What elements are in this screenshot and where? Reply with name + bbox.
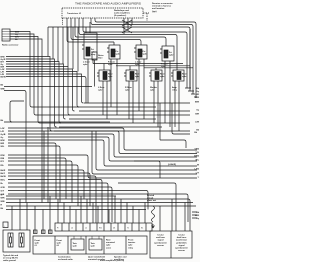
feeder drop wire 1: [47, 27, 49, 57]
corner wire to junction box: [118, 183, 176, 231]
relay component: [92, 52, 97, 60]
svg-text:spkr: spkr: [106, 244, 111, 247]
label radio/tape amplifier: [114, 9, 131, 17]
svg-text:sensor: sensor: [157, 244, 164, 247]
svg-text:spkr: spkr: [98, 89, 103, 92]
nested corner wires right mid: [160, 140, 186, 148]
band5 wire 2: [8, 191, 148, 210]
svg-text:B/R: B/R: [195, 114, 199, 116]
amplifier dashed box: [62, 8, 143, 18]
left harness labels band 5: [1, 187, 5, 196]
wire with corner down: [1, 89, 6, 91]
svg-text:B/W: B/W: [1, 140, 5, 142]
harness wire 3: [6, 62, 61, 124]
svg-text:R/W: R/W: [1, 155, 5, 157]
amplifier block F: [124, 70, 140, 81]
label under block A: [83, 61, 90, 67]
amplifier block B: [107, 45, 120, 59]
connector marks above big box: [34, 230, 38, 234]
legend note top right: [152, 2, 173, 13]
svg-text:speedometer: speedometer: [175, 247, 188, 250]
svg-text:circuit: circuit: [147, 197, 154, 200]
svg-text:spkr: spkr: [169, 54, 174, 57]
band4 wire 3: [8, 176, 96, 223]
band5 wire 1: [8, 187, 112, 222]
svg-text:(6 speakers): (6 speakers): [114, 14, 126, 17]
svg-text:spkr: spkr: [182, 75, 187, 78]
svg-text:conn: conn: [106, 247, 112, 249]
amplifier block H: [171, 70, 187, 81]
svg-text:L Rear: L Rear: [98, 86, 105, 89]
amp fan wire 2: [71, 18, 141, 42]
svg-text:(typ): (typ): [152, 10, 157, 13]
cell text 2: [57, 239, 63, 247]
wire to right y174: [92, 131, 197, 174]
svg-text:pedal ACC: pedal ACC: [176, 241, 187, 244]
svg-text:spkr: spkr: [108, 75, 113, 78]
svg-text:Front: Front: [57, 239, 63, 242]
right stub wires: [185, 29, 197, 97]
harness wire 6: [6, 69, 75, 111]
inter-block wire 3: [144, 67, 193, 69]
svg-text:speedometer: speedometer: [154, 241, 167, 244]
label under block D: [161, 63, 168, 69]
bottom bus wire 4: [6, 209, 146, 211]
svg-text:Bk/R: Bk/R: [1, 170, 6, 172]
svg-text:spkr: spkr: [160, 75, 165, 78]
inter-block wire 1: [93, 63, 183, 65]
caption under box 2: [88, 256, 106, 262]
harness wire 2: [6, 59, 57, 127]
band3 wire 3: [8, 161, 72, 203]
bottom bus wire 3: [6, 205, 196, 207]
label under block F: [125, 86, 132, 92]
amp fan wire 1: [67, 18, 114, 42]
svg-text:Rear: Rear: [108, 73, 113, 76]
band2 wire 5: [8, 140, 197, 166]
wire Bk mid long: [1, 120, 5, 122]
svg-text:Twtr: Twtr: [73, 242, 77, 245]
svg-text:air temp SE-TU: air temp SE-TU: [3, 257, 18, 260]
svg-text:T1: T1: [127, 228, 129, 230]
band3 wire 2: [8, 158, 66, 199]
harness wire 7: [6, 72, 79, 108]
svg-text:W/B: W/B: [1, 201, 6, 203]
svg-text:Cruise: Cruise: [178, 234, 185, 237]
block C wires: [139, 42, 144, 120]
svg-text:Rear: Rear: [106, 239, 111, 242]
band2 wire 6: [8, 143, 56, 199]
svg-text:(L.Bk/R): (L.Bk/R): [168, 164, 176, 166]
left harness labels band 3: [1, 155, 5, 167]
amplifier block G: [149, 70, 165, 81]
svg-text:L/W: L/W: [1, 128, 5, 130]
svg-text:R Rear: R Rear: [125, 86, 132, 89]
left harness labels band 4: [1, 170, 6, 185]
svg-text:spkr: spkr: [91, 245, 96, 248]
bottom bus wire 2: [6, 202, 193, 204]
radio fan wire 3: [10, 37, 40, 124]
svg-text:spkr: spkr: [57, 242, 62, 245]
label under block G: [150, 86, 157, 92]
svg-text:W1: W1: [99, 228, 102, 230]
label under block C: [135, 61, 142, 67]
left harness labels band 1: [1, 57, 6, 79]
corner wire L: [10, 101, 24, 122]
svg-text:spkr: spkr: [116, 53, 121, 56]
mid bus wire 4: [36, 114, 190, 116]
svg-text:W: W: [197, 165, 199, 167]
block E wires: [103, 64, 107, 120]
svg-text:tweeter: tweeter: [128, 241, 135, 244]
svg-text:Rear: Rear: [160, 73, 165, 76]
feeder drop wire 2: [52, 27, 54, 59]
block B wires: [111, 42, 117, 115]
right edge stub labels: [195, 88, 200, 99]
svg-text:spkr: spkr: [128, 244, 133, 247]
svg-text:Bk/L: Bk/L: [1, 180, 6, 182]
feeder drop wire 3: [57, 27, 59, 62]
harness wire 1: [6, 57, 52, 132]
mid label on wire: [168, 164, 176, 166]
svg-text:Gy/B: Gy/B: [1, 134, 6, 136]
amp fan wire 7: [95, 18, 196, 97]
flexible feeder squiggle: [152, 206, 155, 222]
band4 wire 1: [8, 170, 84, 199]
svg-text:D1: D1: [113, 228, 115, 230]
mid bus wire 1: [84, 102, 190, 104]
svg-text:Br: Br: [1, 182, 4, 185]
svg-text:G/Y: G/Y: [1, 191, 5, 193]
svg-text:Twtr: Twtr: [91, 242, 95, 245]
connector strip: [55, 223, 152, 231]
svg-text:Radio connector: Radio connector: [2, 44, 19, 47]
bottom bus wire 0: [6, 195, 116, 197]
svg-text:R front: R front: [108, 61, 115, 64]
block D wires: [165, 39, 170, 127]
radio fan wire 4: [10, 39, 42, 203]
svg-text:spkr: spkr: [135, 75, 140, 78]
amp fan wire 6: [91, 18, 193, 94]
block G wires: [154, 68, 158, 127]
band2 wire 3: [8, 134, 197, 157]
label Transistors #1: [67, 12, 82, 15]
harness wire 4: [6, 64, 66, 119]
block H wires: [175, 37, 179, 132]
band3 wire 4: [8, 165, 78, 206]
dashed stub below amp box: [62, 18, 64, 25]
svg-text:Bk/W: Bk/W: [1, 77, 6, 79]
feeder drop wire 4: [62, 27, 64, 64]
mid bus wire 6: [40, 122, 190, 124]
svg-text:sensor: sensor: [178, 249, 185, 252]
wire Bk long: [1, 85, 5, 87]
svg-text:spkr: spkr: [35, 242, 40, 245]
band2 wire 2: [8, 131, 197, 154]
band3 wire 1: [8, 155, 197, 178]
svg-text:S1: S1: [141, 228, 143, 230]
band4 wire 5: [8, 183, 108, 223]
svg-text:Transistors #1: Transistors #1: [67, 12, 82, 15]
tweeter box 2: [89, 239, 102, 250]
inline connector left: [3, 222, 8, 228]
svg-text:R/B: R/B: [1, 158, 5, 160]
bottom bus wire 1: [6, 199, 190, 231]
amplifier block C: [134, 45, 147, 59]
feeder drop wire 5: [67, 27, 69, 67]
fuse 1: [10, 237, 12, 243]
fuse 2: [21, 237, 23, 243]
svg-text:Frt: Frt: [169, 51, 172, 54]
amp fan wire 3: [75, 18, 166, 39]
amplifier block E: [97, 70, 113, 81]
strip cell labels: [57, 228, 143, 230]
svg-text:Bk/W: Bk/W: [1, 176, 6, 178]
label under fuse box: [3, 254, 19, 262]
right stub labels bottom: [195, 212, 200, 220]
harness wire 8: [6, 74, 84, 103]
svg-text:on-board radio: on-board radio: [58, 258, 73, 261]
mid bus wire 8: [54, 130, 190, 132]
harness wire 5: [6, 67, 70, 116]
label under block B: [108, 61, 115, 67]
radio connector box: [2, 29, 10, 41]
bottom drop wires: [11, 206, 13, 230]
inter-block wire 2: [116, 65, 190, 67]
svg-text:spkr: spkr: [83, 63, 88, 66]
caption under box 1: [58, 256, 73, 262]
fuse pocket 2: [19, 233, 24, 247]
wire to right y170: [96, 131, 197, 170]
svg-text:Speaker and: Speaker and: [114, 256, 127, 259]
svg-text:B/Bk: B/Bk: [194, 156, 200, 158]
svg-text:spkr: spkr: [91, 51, 96, 54]
svg-text:Frt: Frt: [91, 48, 94, 51]
dashed lead right: [143, 12, 149, 14]
band2 wire 4: [8, 137, 197, 161]
svg-text:B/R: B/R: [1, 143, 5, 145]
svg-text:Denotes a connector: Denotes a connector: [152, 2, 173, 5]
tweeter box 1: [71, 239, 84, 250]
feeder drop wire 6: [72, 27, 74, 69]
band4 wire 2: [8, 173, 90, 206]
svg-text:glass ant: glass ant: [147, 199, 156, 202]
svg-text:accelerator: accelerator: [176, 239, 187, 242]
svg-text:terminal in harness: terminal in harness: [152, 5, 172, 8]
svg-text:W/R: W/R: [1, 198, 6, 200]
svg-text:Frt: Frt: [116, 50, 119, 53]
band2 wire 1: [8, 128, 197, 150]
bottom right 2-cell box: [150, 231, 192, 258]
svg-text:L front: L front: [83, 61, 90, 64]
svg-text:Front: Front: [128, 239, 134, 242]
svg-text:Rear: Rear: [135, 73, 140, 76]
svg-text:and location: and location: [152, 7, 165, 10]
amplifier block D: [160, 46, 174, 61]
fuse box left: [3, 230, 30, 252]
amp fan wire 5: [83, 18, 187, 85]
band5 wire 3: [8, 194, 188, 222]
svg-text:L/W: L/W: [195, 122, 199, 124]
svg-text:Bk/Y: Bk/Y: [1, 173, 6, 175]
mid bus wire 3: [79, 110, 190, 112]
svg-text:Typical dirt and: Typical dirt and: [3, 254, 19, 257]
bus drop wire 2: [47, 127, 49, 203]
svg-text:R door: R door: [161, 63, 168, 66]
svg-text:L/R: L/R: [1, 131, 5, 133]
band2 wire 7: [8, 146, 60, 203]
label under block H: [172, 86, 178, 92]
svg-text:spkr: spkr: [73, 245, 78, 248]
svg-text:filter: filter: [98, 57, 103, 60]
label radio connector: [2, 44, 19, 47]
mid bus wire 7: [59, 126, 162, 128]
svg-text:Frt: Frt: [143, 50, 146, 53]
svg-text:Y/G: Y/G: [195, 152, 199, 154]
cell text 6: [128, 239, 135, 250]
amp fan wire 4: [79, 18, 177, 37]
right labels band2: [194, 149, 200, 179]
svg-text:Front: Front: [35, 239, 41, 242]
block F wires: [129, 66, 133, 123]
cell text 5: [106, 239, 116, 250]
svg-text:L1: L1: [85, 228, 87, 230]
radio fan wire 1: [10, 32, 32, 108]
svg-text:dual horn: dual horn: [177, 236, 187, 239]
radio fan wire 2: [10, 34, 36, 115]
cell text 1: [35, 239, 41, 247]
svg-text:spkr: spkr: [143, 53, 148, 56]
crossover wires: [124, 18, 132, 34]
svg-text:Quter windshield: Quter windshield: [88, 256, 106, 259]
svg-text:L2: L2: [71, 228, 73, 230]
svg-text:B/W: B/W: [195, 102, 199, 104]
feeder drop wire 7: [77, 27, 79, 72]
svg-text:G/W: G/W: [1, 187, 5, 189]
svg-text:B/R: B/R: [195, 94, 199, 96]
svg-text:relay: relay: [128, 246, 134, 249]
svg-text:W: W: [1, 195, 3, 197]
bottom bus labels: [1, 195, 6, 211]
svg-text:amp: amp: [91, 54, 96, 56]
svg-text:Rear: Rear: [182, 73, 187, 76]
block A wires: [86, 22, 93, 103]
svg-text:mounted: mounted: [106, 241, 116, 244]
svg-text:L door: L door: [135, 61, 142, 64]
svg-text:Cruise: Cruise: [157, 234, 164, 237]
left harness labels band 2: [1, 128, 6, 148]
caption under box 3: [114, 256, 127, 262]
bottom caption: [100, 259, 124, 262]
bus drop wire 1: [43, 131, 45, 199]
hanging feeder wire: [48, 27, 190, 88]
title text: [75, 3, 142, 6]
mid bus wire 2: [32, 106, 156, 108]
mid bus wire 5: [69, 118, 156, 120]
label under block E: [98, 86, 105, 92]
svg-text:R/Y: R/Y: [1, 161, 5, 163]
mid bus right labels: [195, 102, 200, 132]
amplifier block A: [82, 33, 97, 59]
svg-text:+: +: [4, 226, 5, 228]
svg-text:Printed: Printed: [147, 194, 155, 197]
speaker connector big box: [33, 236, 147, 254]
svg-text:Combination: Combination: [58, 256, 71, 259]
svg-text:THE RADIO/TAPE AND AUDIO AMPLI: THE RADIO/TAPE AND AUDIO AMPLIFIERS: [75, 3, 142, 6]
radio connector pin labels: [15, 32, 19, 42]
fuse pocket 1: [8, 233, 13, 247]
harness wire 9: [6, 77, 86, 104]
band4 wire 4: [8, 180, 102, 224]
